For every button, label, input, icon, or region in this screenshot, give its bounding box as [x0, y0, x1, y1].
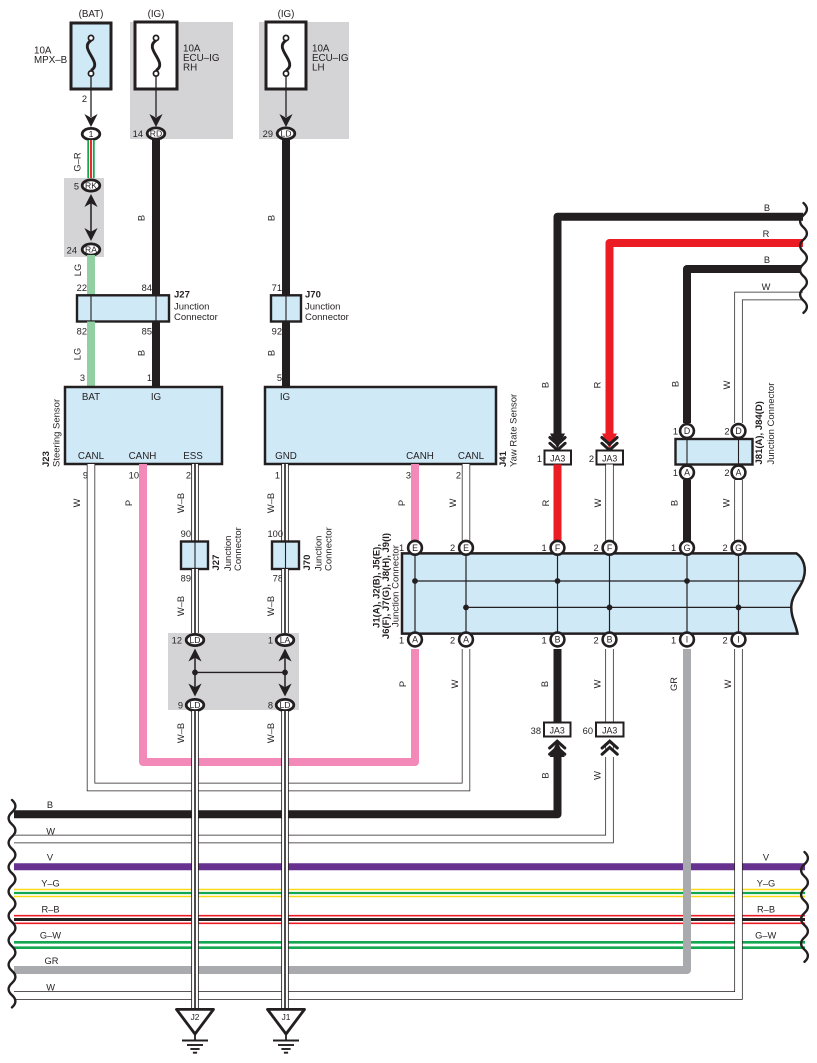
arrow into 60JA3	[602, 741, 617, 757]
svg-text:G–W: G–W	[40, 931, 61, 941]
svg-text:B: B	[764, 203, 770, 213]
value label 10A ECU-IG RH	[183, 44, 219, 74]
svg-text:1: 1	[275, 471, 280, 481]
svg-text:D: D	[735, 426, 741, 436]
svg-text:(IG): (IG)	[148, 9, 165, 20]
grey shade LD connectors	[168, 633, 299, 710]
svg-text:B: B	[764, 255, 770, 265]
svg-text:G–W: G–W	[755, 931, 776, 941]
wire GR bus to 1I	[14, 649, 687, 970]
svg-text:W: W	[72, 498, 82, 507]
connector node 1 LA	[276, 634, 294, 645]
svg-text:GR: GR	[45, 956, 59, 966]
svg-text:Yaw Rate Sensor: Yaw Rate Sensor	[509, 394, 520, 467]
svg-text:LD: LD	[190, 700, 201, 710]
wire W-B ESS J23 to J27	[191, 464, 199, 542]
wire W-B J27 to 12LD	[191, 569, 199, 634]
label Junction Connector J70 lower	[314, 527, 335, 571]
svg-text:W: W	[593, 679, 603, 688]
svg-text:W: W	[593, 771, 603, 780]
svg-text:Junction Connector: Junction Connector	[766, 383, 777, 465]
wire LG RA to J27	[87, 255, 95, 295]
svg-text:10: 10	[129, 471, 139, 481]
svg-text:29: 29	[263, 129, 273, 139]
svg-text:92: 92	[272, 327, 282, 337]
svg-text:B: B	[137, 215, 147, 221]
svg-text:P: P	[124, 500, 134, 506]
svg-text:1: 1	[537, 454, 542, 464]
wire LH fuse to LD	[279, 76, 292, 127]
svg-text:2: 2	[724, 468, 729, 478]
svg-text:J70: J70	[305, 290, 321, 301]
junction connector J70 lower	[272, 542, 299, 570]
svg-text:P: P	[397, 500, 407, 506]
svg-text:71: 71	[272, 283, 282, 293]
svg-text:A: A	[463, 635, 469, 645]
svg-text:2: 2	[456, 471, 461, 481]
svg-text:B: B	[267, 215, 277, 221]
svg-text:Junction: Junction	[174, 302, 209, 313]
wire W-B 8LD to ground J1	[281, 711, 289, 1009]
break squiggle top right	[800, 203, 807, 313]
connector node 9 LD	[186, 699, 204, 710]
svg-text:2: 2	[450, 543, 455, 553]
svg-text:2: 2	[186, 471, 191, 481]
svg-text:9: 9	[178, 701, 183, 711]
svg-text:JA3: JA3	[550, 454, 565, 464]
svg-text:W: W	[722, 498, 732, 507]
wire B LD to J70	[282, 139, 290, 295]
connector node 1A J81	[680, 466, 694, 480]
svg-text:G–R: G–R	[73, 152, 83, 171]
svg-text:W: W	[450, 679, 460, 688]
svg-text:A: A	[412, 635, 418, 645]
junction connector J70 upper	[271, 295, 301, 321]
svg-text:CANH: CANH	[129, 451, 157, 462]
svg-text:R–B: R–B	[757, 905, 775, 915]
svg-text:1: 1	[268, 636, 273, 646]
svg-text:3: 3	[406, 471, 411, 481]
value label 10A MPX-B	[34, 46, 68, 67]
svg-text:LH: LH	[312, 63, 325, 74]
svg-text:CANL: CANL	[458, 451, 485, 462]
svg-text:1: 1	[673, 427, 678, 437]
connector node 2B bottom	[603, 633, 617, 647]
svg-text:2: 2	[724, 427, 729, 437]
svg-text:P: P	[398, 681, 408, 687]
wire B 1A to 1G	[683, 480, 691, 541]
ground symbol J1	[268, 1009, 305, 1052]
connector node 1I bottom	[680, 633, 694, 647]
wire B feed to J81 1D	[687, 269, 801, 423]
svg-text:LD: LD	[190, 635, 201, 645]
svg-text:Junction: Junction	[305, 302, 340, 313]
wire G-R from node 1 to RK	[87, 140, 94, 180]
svg-text:LD: LD	[281, 129, 292, 139]
fuse 10A ECU-IG RH (IG)	[135, 22, 177, 89]
wire W feed to J81 2D	[739, 296, 804, 423]
svg-text:W: W	[762, 282, 771, 292]
fuse 10A ECU-IG LH (IG)	[266, 22, 306, 89]
connector node 2F top	[603, 541, 617, 555]
svg-text:LA: LA	[280, 635, 291, 645]
svg-text:B: B	[607, 635, 613, 645]
svg-text:E: E	[412, 543, 418, 553]
svg-text:W: W	[722, 380, 732, 389]
svg-text:Connector: Connector	[324, 527, 335, 571]
svg-text:D: D	[684, 426, 690, 436]
svg-text:2: 2	[723, 543, 728, 553]
bus wire Y-G	[14, 889, 805, 897]
wire fuse MPX-B pin 2 to connector 1	[84, 76, 97, 127]
svg-text:G: G	[684, 543, 691, 553]
svg-text:1: 1	[542, 543, 547, 553]
connector node 1F top	[551, 541, 565, 555]
svg-text:CANH: CANH	[406, 451, 434, 462]
grey shade RK-RA	[64, 178, 104, 257]
jumper 1LA to 8LD with junction	[278, 649, 291, 697]
svg-text:RD: RD	[150, 129, 162, 139]
fuse 10A MPX-B (BAT)	[71, 23, 111, 89]
svg-text:2: 2	[450, 636, 455, 646]
wire R feed to 2JA3	[610, 243, 804, 437]
svg-text:R–B: R–B	[41, 905, 59, 915]
svg-text:R: R	[763, 229, 770, 239]
svg-text:W: W	[723, 679, 733, 688]
svg-text:1: 1	[89, 129, 94, 139]
svg-text:BAT: BAT	[82, 392, 100, 403]
svg-text:Connector: Connector	[233, 527, 244, 571]
svg-text:W–B: W–B	[266, 493, 276, 513]
svg-text:J23: J23	[41, 451, 52, 467]
svg-text:B: B	[541, 772, 551, 778]
svg-text:B: B	[555, 635, 561, 645]
wire P CANH J23 to 1A	[143, 464, 415, 762]
wire W J41 CANL to 2E	[462, 464, 470, 541]
wire W 2A to 2G	[734, 480, 742, 541]
junction dots row2	[463, 605, 741, 611]
connector node 12 LD	[186, 634, 204, 645]
svg-text:1: 1	[399, 636, 404, 646]
wire B J70 to J41 IG	[282, 322, 290, 388]
svg-text:Steering Sensor: Steering Sensor	[52, 399, 63, 467]
svg-text:1: 1	[147, 373, 152, 383]
arrow into 38JA3	[550, 741, 565, 757]
svg-text:JA3: JA3	[602, 454, 617, 464]
connector node 1B bottom	[551, 633, 565, 647]
svg-text:R: R	[593, 381, 603, 388]
svg-text:IG: IG	[280, 392, 290, 403]
connector node RD	[147, 128, 165, 139]
svg-text:J2: J2	[191, 1012, 200, 1022]
svg-text:B: B	[267, 350, 277, 356]
svg-text:89: 89	[181, 574, 191, 584]
yaw rate sensor J41	[265, 387, 496, 464]
svg-text:2: 2	[594, 636, 599, 646]
svg-text:Y–G: Y–G	[757, 879, 776, 889]
wire W bus to 2I	[14, 649, 739, 996]
svg-text:F: F	[555, 543, 561, 553]
svg-text:2: 2	[82, 94, 87, 104]
svg-text:W: W	[593, 498, 603, 507]
svg-text:(IG): (IG)	[278, 9, 295, 20]
svg-text:I: I	[686, 635, 688, 645]
wire P J41 CANH to 1E	[411, 464, 419, 541]
connector node RK	[82, 180, 100, 191]
arrow into 2JA3	[602, 434, 617, 451]
jumper 12LD to 9LD with junction	[188, 649, 201, 697]
wire R 1JA3 to 1F	[554, 465, 562, 542]
svg-text:1: 1	[671, 636, 676, 646]
svg-text:1: 1	[673, 468, 678, 478]
connector node 1G top	[680, 541, 694, 555]
connector node 1E top	[408, 541, 422, 555]
connector node RA	[82, 244, 100, 255]
svg-text:RA: RA	[85, 245, 97, 255]
svg-text:RK: RK	[85, 181, 97, 191]
svg-text:J1: J1	[282, 1012, 291, 1022]
svg-text:Y–G: Y–G	[41, 879, 60, 889]
wire B bus to 38JA3	[14, 755, 558, 814]
svg-text:W–B: W–B	[266, 723, 276, 743]
svg-text:Connector: Connector	[174, 312, 218, 323]
svg-text:B: B	[541, 382, 551, 388]
svg-text:R: R	[541, 499, 551, 506]
svg-text:38: 38	[531, 726, 541, 736]
svg-text:W–B: W–B	[176, 493, 186, 513]
connector node 1	[82, 128, 100, 139]
svg-text:I: I	[737, 635, 739, 645]
svg-text:IG: IG	[151, 392, 161, 403]
jumper cross wire	[195, 671, 285, 673]
connector 60 JA3	[596, 723, 624, 737]
wire B feed to 1JA3	[558, 217, 804, 437]
svg-text:2: 2	[723, 636, 728, 646]
wire B J27 to J23 IG	[152, 322, 160, 388]
svg-text:84: 84	[142, 283, 152, 293]
svg-text:5: 5	[277, 373, 282, 383]
grey shade RH fuse	[130, 22, 233, 139]
junction connector J1 J2 J5 J6 J7 J8 J9	[402, 553, 805, 633]
svg-text:GR: GR	[669, 677, 679, 691]
bus wire V	[14, 863, 805, 870]
svg-text:Connector: Connector	[305, 312, 349, 323]
steering sensor J23	[65, 387, 222, 464]
wire B RD to J27	[152, 139, 160, 295]
svg-text:1: 1	[671, 543, 676, 553]
wire W CANL J23 to 2A	[91, 464, 466, 787]
connector node LD	[277, 128, 295, 139]
arrow into 1JA3	[550, 434, 565, 451]
svg-text:24: 24	[67, 246, 77, 256]
connector node 1A bottom	[408, 633, 422, 647]
svg-text:B: B	[47, 800, 53, 810]
junction connector J27 upper	[77, 295, 169, 321]
wire RH fuse to RD	[149, 76, 162, 127]
svg-text:(BAT): (BAT)	[79, 9, 104, 20]
svg-text:5: 5	[74, 182, 79, 192]
label Junction Connector J27 lower	[223, 527, 244, 571]
svg-text:W–B: W–B	[176, 723, 186, 743]
svg-text:W: W	[448, 498, 458, 507]
svg-text:LG: LG	[73, 348, 83, 360]
svg-text:CANL: CANL	[78, 451, 105, 462]
value label 10A ECU-IG LH	[312, 44, 348, 74]
svg-text:J41: J41	[498, 450, 509, 467]
grey shade LH fuse	[259, 22, 349, 139]
wire W-B 9LD to ground J2	[191, 711, 199, 1009]
connector node 2A bottom	[459, 633, 473, 647]
svg-text:W–B: W–B	[266, 596, 276, 616]
jumper arrows RK to RA	[84, 194, 97, 241]
connector 2 JA3	[597, 451, 624, 465]
bus wire G-W	[14, 941, 805, 949]
svg-text:V: V	[763, 853, 770, 863]
connector node 2D	[732, 424, 746, 438]
break squiggle left edge	[9, 800, 16, 1007]
svg-text:J70: J70	[302, 555, 313, 571]
connector node 2G top	[732, 541, 746, 555]
ground symbol J2	[177, 1009, 214, 1052]
svg-text:85: 85	[142, 327, 152, 337]
svg-text:ESS: ESS	[183, 451, 203, 462]
svg-text:B: B	[137, 350, 147, 356]
svg-text:LD: LD	[280, 700, 291, 710]
junction connector J81 J84	[676, 439, 753, 465]
wire W-B GND J41 to J70	[281, 464, 289, 542]
svg-text:JA3: JA3	[602, 726, 617, 736]
svg-text:J27: J27	[174, 290, 190, 301]
wire W 2JA3 to 2F	[605, 465, 613, 542]
svg-text:B: B	[671, 381, 681, 387]
svg-text:LG: LG	[73, 264, 83, 276]
connector 38 JA3	[544, 723, 571, 737]
label J27 upper	[174, 290, 218, 324]
wire LG J27 to J23 BAT	[87, 322, 95, 388]
break squiggle bottom right	[801, 852, 808, 962]
connector 1 JA3	[545, 451, 572, 465]
svg-text:G: G	[735, 543, 742, 553]
svg-text:A: A	[684, 468, 690, 478]
svg-text:14: 14	[133, 129, 143, 139]
svg-text:2: 2	[589, 454, 594, 464]
svg-text:F: F	[607, 543, 613, 553]
svg-text:MPX–B: MPX–B	[34, 55, 68, 66]
connector node 2I bottom	[732, 633, 746, 647]
svg-text:E: E	[463, 543, 469, 553]
wire W-B J70 to 1LA	[281, 569, 289, 634]
svg-text:8: 8	[268, 701, 273, 711]
svg-text:GND: GND	[275, 451, 297, 462]
svg-text:82: 82	[77, 327, 87, 337]
svg-text:60: 60	[583, 726, 593, 736]
svg-text:A: A	[736, 468, 742, 478]
connector node 2E top	[459, 541, 473, 555]
svg-text:V: V	[47, 853, 54, 863]
connector node 8 LD	[276, 699, 294, 710]
svg-text:W: W	[46, 983, 55, 993]
wire W bus to 60JA3	[14, 743, 610, 839]
bus wire R-B	[14, 915, 805, 924]
junction connector J27 lower	[181, 542, 208, 570]
svg-text:JA3: JA3	[550, 726, 565, 736]
svg-text:B: B	[540, 681, 550, 687]
svg-text:W: W	[46, 827, 55, 837]
wire W 2B to 60JA3	[605, 649, 613, 723]
svg-text:B: B	[670, 500, 680, 506]
svg-text:Junction Connector: Junction Connector	[391, 545, 402, 627]
junction dots row1	[412, 578, 690, 584]
svg-text:22: 22	[77, 283, 87, 293]
svg-text:12: 12	[172, 636, 182, 646]
wire B 1B to 38JA3	[554, 649, 562, 723]
svg-text:RH: RH	[183, 63, 197, 74]
svg-text:2: 2	[594, 543, 599, 553]
svg-text:1: 1	[542, 636, 547, 646]
label J70 upper	[305, 290, 349, 324]
connector node 1D	[680, 424, 694, 438]
svg-text:J27: J27	[211, 555, 222, 571]
svg-text:3: 3	[80, 373, 85, 383]
svg-text:90: 90	[181, 529, 191, 539]
svg-text:100: 100	[267, 529, 283, 539]
svg-text:W–B: W–B	[176, 596, 186, 616]
svg-text:J81(A), J84(D): J81(A), J84(D)	[754, 401, 765, 464]
connector node 2A J81	[732, 466, 746, 480]
